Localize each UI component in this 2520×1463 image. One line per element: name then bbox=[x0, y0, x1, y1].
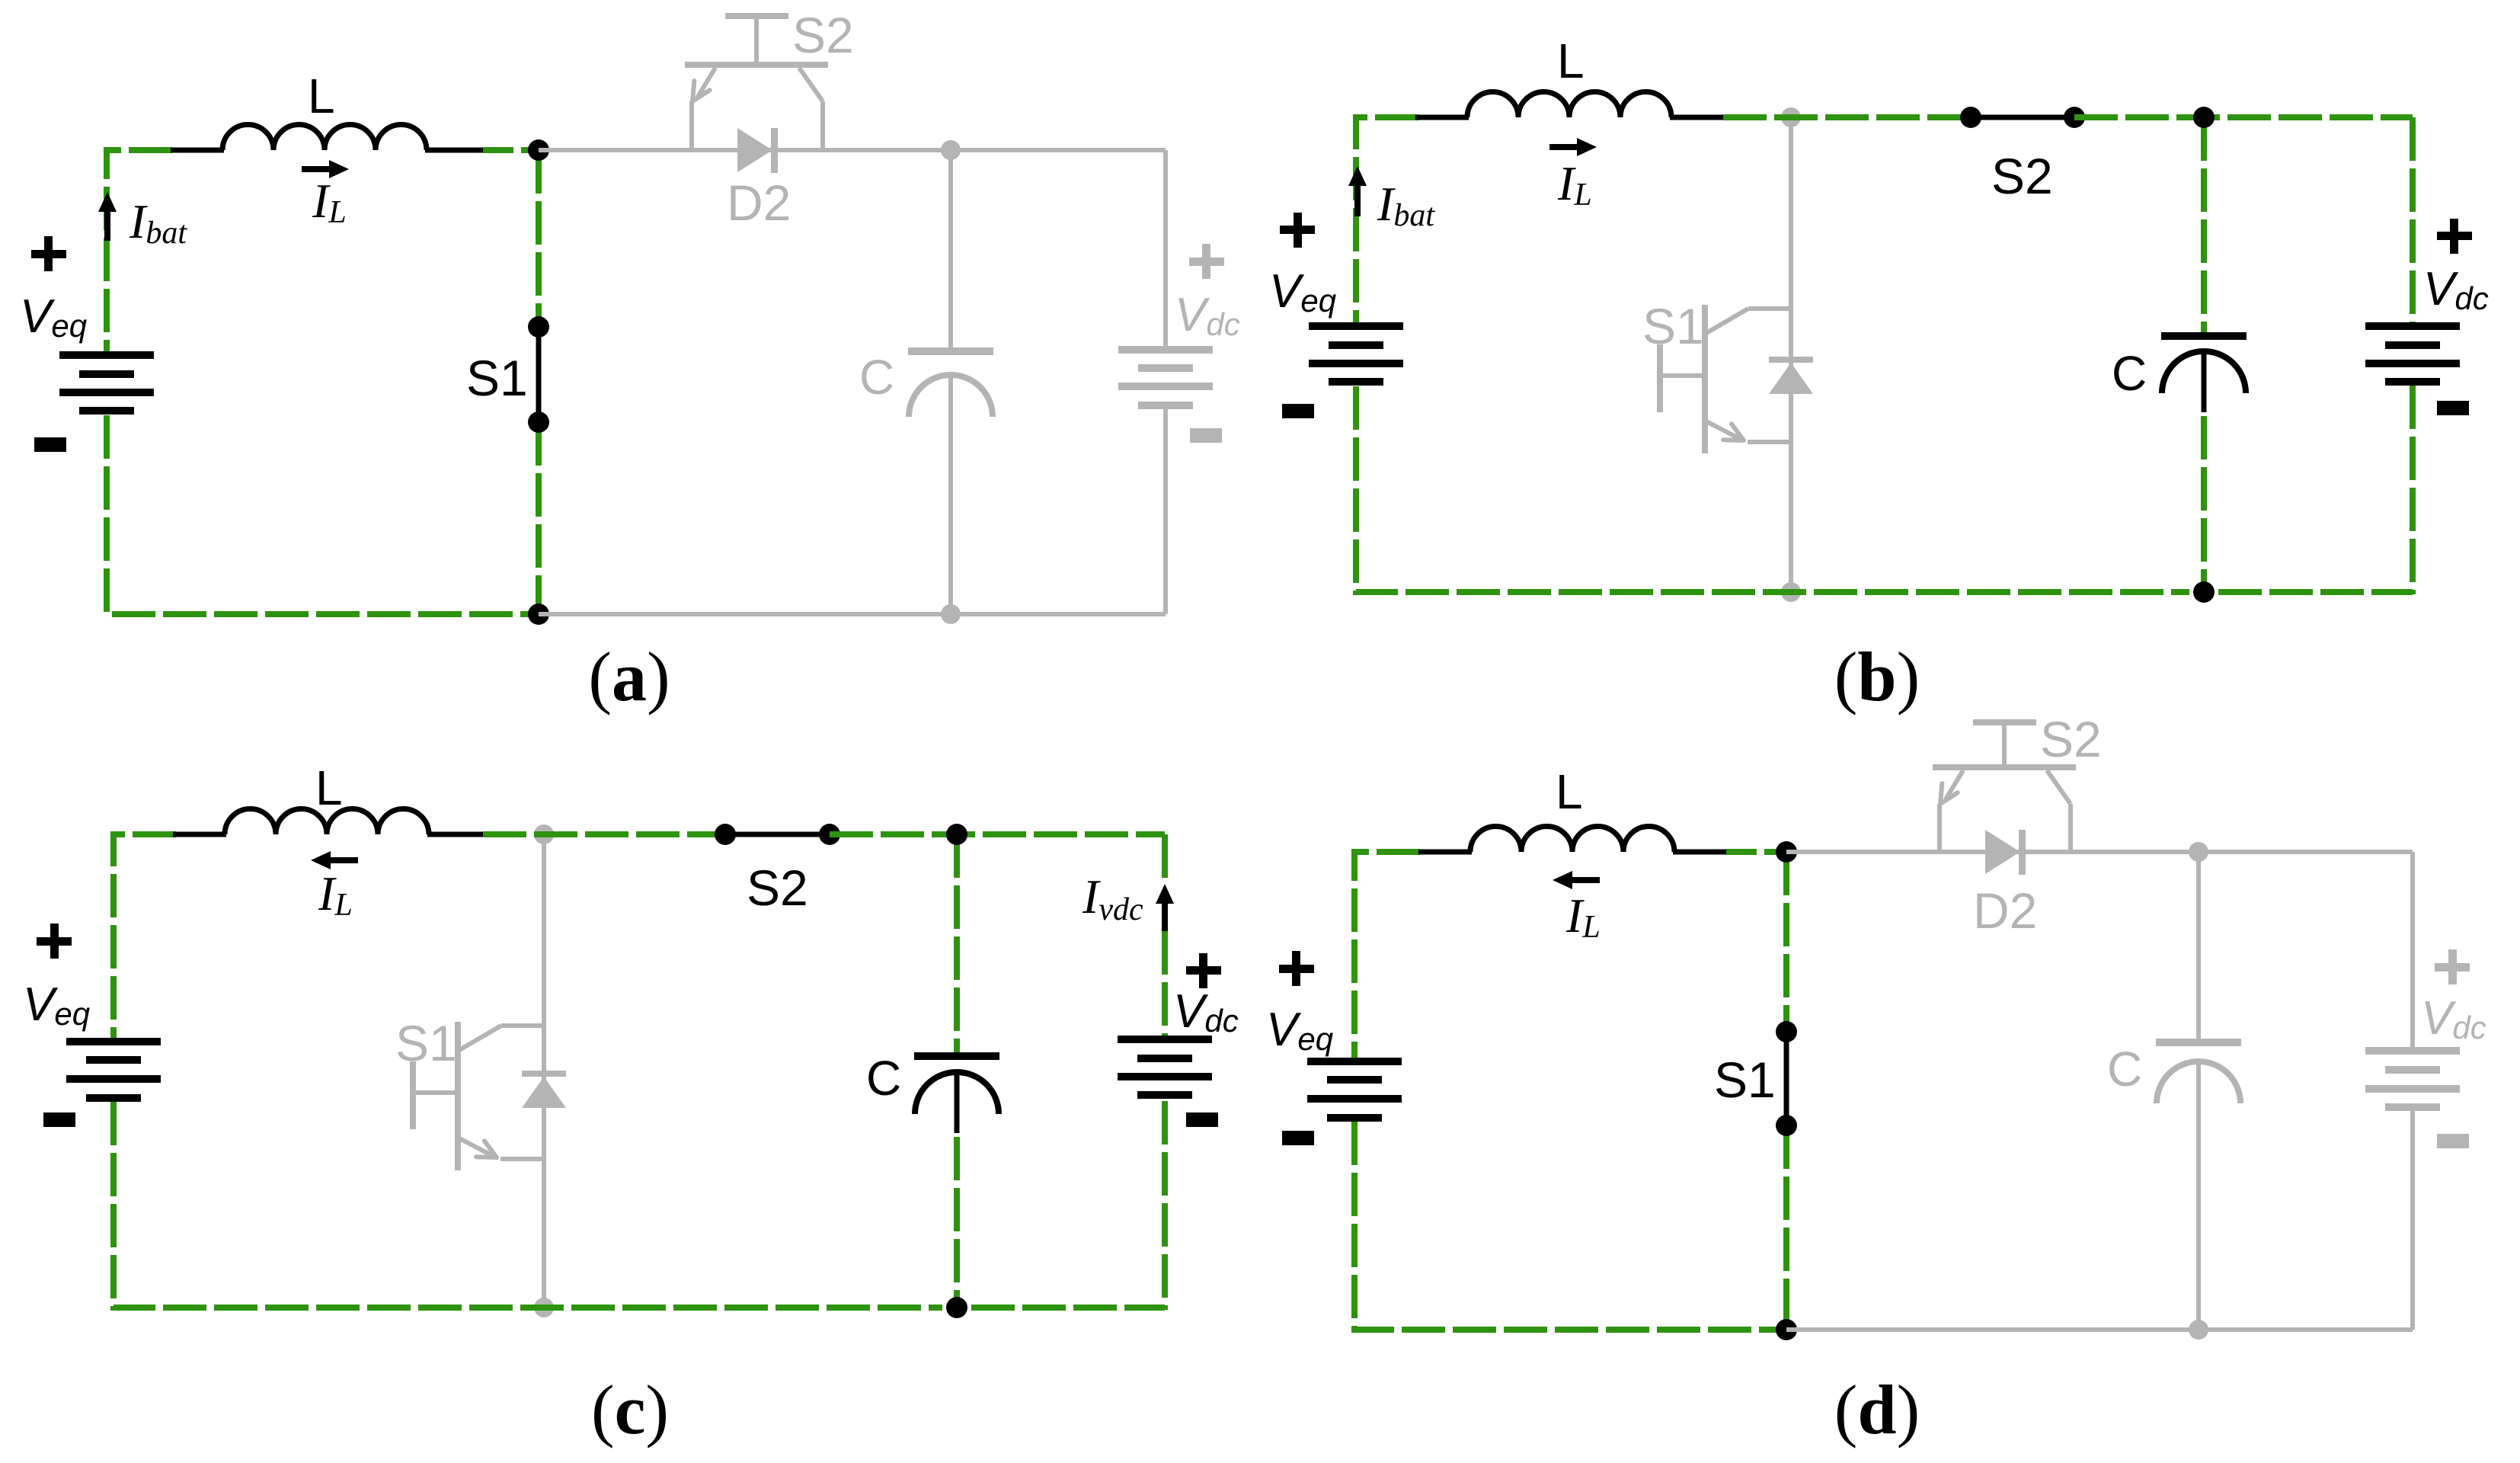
junction dot C top (d) bbox=[2189, 842, 2208, 862]
transistor S1 gate stub (c) bbox=[413, 1090, 458, 1095]
wire green left+top (d) bbox=[1354, 852, 1420, 1058]
label minus of Veq (b) bbox=[1282, 404, 1314, 418]
capacitor C (c) bbox=[914, 1052, 999, 1060]
capacitor C black lead (c) bbox=[955, 1072, 960, 1133]
wire black inductor lead right (b) bbox=[1670, 115, 1725, 120]
svg-text:(d): (d) bbox=[1834, 1371, 1920, 1449]
arrow IL (d) bbox=[1569, 877, 1600, 883]
capacitor C black lead (b) bbox=[2202, 351, 2207, 412]
junction dot C bottom (a) bbox=[941, 604, 961, 624]
wire green top segment 3 (b) bbox=[2074, 114, 2413, 120]
capacitor C branch green upper (c) bbox=[954, 834, 960, 1052]
wire green right upper (b) bbox=[2410, 117, 2416, 322]
svg-text:L: L bbox=[315, 760, 343, 815]
capacitor C upper lead (a) bbox=[948, 150, 953, 347]
arrow Ibat (b) bbox=[1354, 177, 1361, 216]
transistor S1 gate stub (b) bbox=[1660, 373, 1705, 378]
battery Veq (d) bbox=[1307, 1058, 1402, 1065]
label minus of Vdc (a) bbox=[1190, 428, 1222, 443]
svg-text:S1: S1 bbox=[466, 350, 528, 406]
capacitor C lower lead (d) bbox=[2196, 1061, 2201, 1330]
svg-text:L: L bbox=[1557, 34, 1585, 88]
wire green top segment 2 (c) bbox=[483, 831, 725, 837]
transistor S2 body bar (a) bbox=[685, 62, 828, 68]
label plus of Vdc (c) bbox=[1186, 966, 1221, 975]
wire black inductor lead left (b) bbox=[1415, 115, 1469, 120]
label plus of Vdc (d) bbox=[2435, 963, 2470, 972]
capacitor C branch green upper (b) bbox=[2201, 117, 2207, 332]
junction dot S1 bottom (c) bbox=[534, 1298, 554, 1317]
label minus of Veq (d) bbox=[1282, 1131, 1314, 1145]
arrow Ibat (a) bbox=[104, 203, 110, 241]
arrow IL (a) bbox=[302, 166, 332, 172]
junction dot C bottom (c) bbox=[946, 1297, 967, 1318]
diode of S1 (c) bbox=[522, 1071, 566, 1077]
switch S2 closed (b) bbox=[1971, 115, 2074, 120]
transistor S2 collector (d) bbox=[2047, 770, 2071, 804]
node dot S2 left (b) bbox=[1960, 107, 1981, 128]
wire green top segment 3 (c) bbox=[830, 831, 1165, 837]
label plus of Vdc (b) bbox=[2437, 232, 2472, 240]
transistor S1 body bar (b) bbox=[1702, 305, 1708, 453]
junction node bottom (d) bbox=[1776, 1319, 1797, 1340]
svg-text:C: C bbox=[2112, 346, 2147, 401]
junction dot C top (b) bbox=[2193, 107, 2215, 128]
inductor L (b) bbox=[1467, 92, 1671, 118]
transistor S2 gate stub (a) bbox=[754, 16, 759, 65]
label minus of Veq (a) bbox=[34, 437, 66, 452]
wire black inductor lead left (a) bbox=[171, 148, 224, 153]
label minus of Vdc (b) bbox=[2437, 401, 2469, 415]
label minus of Vdc (c) bbox=[1186, 1112, 1218, 1127]
junction dot S1 bottom (b) bbox=[1781, 582, 1801, 602]
wire green left lower (d) bbox=[1354, 1122, 1780, 1330]
wire gray bottom (d) bbox=[1786, 1327, 2413, 1332]
diode D2 (d) bbox=[1985, 830, 2020, 874]
wire green top-right segment (d) bbox=[1726, 849, 1786, 855]
switch S1 closed (a) bbox=[536, 327, 542, 422]
wire gray right lower (d) bbox=[2410, 1111, 2415, 1330]
transistor S1 collector (b) bbox=[1706, 309, 1748, 333]
capacitor C (d) bbox=[2156, 1039, 2241, 1046]
capacitor C branch green lower (b) bbox=[2201, 416, 2207, 592]
wire black inductor lead left (c) bbox=[173, 832, 226, 837]
svg-text:(a): (a) bbox=[588, 638, 670, 715]
junction node bottom (a) bbox=[528, 603, 549, 625]
diode of S1 (b) bbox=[1769, 357, 1813, 363]
wire green bottom (c) bbox=[971, 1305, 1165, 1311]
wire black inductor lead right (d) bbox=[1673, 850, 1728, 855]
wire gray right upper (a) bbox=[1163, 150, 1168, 351]
svg-text:S2: S2 bbox=[2040, 711, 2102, 767]
capacitor C (b) bbox=[2161, 332, 2247, 340]
label minus of Vdc (d) bbox=[2437, 1134, 2469, 1148]
node dot S1 top (d) bbox=[1776, 1021, 1797, 1042]
junction dot C top (a) bbox=[941, 140, 961, 160]
wire gray S1 leg (c) bbox=[542, 834, 546, 1308]
wire green left lower (c) bbox=[114, 1102, 942, 1308]
node dot S2 right (c) bbox=[819, 824, 840, 845]
transistor S2 gate bar (d) bbox=[1973, 719, 2036, 725]
wire green S1 leg upper (d) bbox=[1783, 852, 1789, 1032]
switch S2 closed (c) bbox=[725, 832, 830, 837]
transistor S1 emitter (c) bbox=[459, 1138, 494, 1157]
svg-text:D2: D2 bbox=[1973, 882, 2037, 939]
battery Veq (b) bbox=[1309, 322, 1403, 330]
wire green right upper (c) bbox=[1162, 834, 1168, 884]
wire black inductor lead right (c) bbox=[427, 832, 484, 837]
capacitor C branch green lower (c) bbox=[954, 1137, 960, 1308]
junction dot C top (c) bbox=[946, 824, 967, 845]
junction node top (a) bbox=[528, 139, 549, 161]
label plus of Veq (d) bbox=[1279, 965, 1314, 973]
arrow Ivdc (c) bbox=[1162, 895, 1168, 931]
label plus of Veq (b) bbox=[1280, 226, 1315, 234]
transistor S2 gate bar (a) bbox=[725, 13, 788, 19]
arrow IL (b) bbox=[1549, 144, 1580, 150]
junction dot S1 top (c) bbox=[534, 824, 554, 844]
capacitor C lower lead (a) bbox=[948, 375, 953, 614]
inductor L (a) bbox=[222, 125, 427, 151]
node dot S2 left (c) bbox=[715, 824, 736, 845]
wire green left+top (c) bbox=[114, 834, 176, 1038]
wire green right lower (c) bbox=[1162, 1101, 1168, 1310]
label plus of Veq (a) bbox=[31, 250, 66, 258]
svg-text:C: C bbox=[859, 350, 894, 405]
wire green S1 leg lower (a) bbox=[536, 422, 542, 614]
transistor S2 emitter (d) bbox=[1946, 770, 1963, 799]
wire green top segment 2 (b) bbox=[1723, 114, 1971, 120]
node dot S1 bottom (d) bbox=[1776, 1115, 1797, 1136]
wire gray right upper (d) bbox=[2410, 852, 2415, 1053]
svg-text:(c): (c) bbox=[591, 1371, 669, 1449]
transistor S2 collector (a) bbox=[799, 68, 823, 101]
svg-text:S2: S2 bbox=[792, 7, 854, 63]
node dot S1 top (a) bbox=[528, 316, 549, 338]
wire green S1 leg upper (a) bbox=[536, 150, 542, 327]
svg-text:C: C bbox=[2107, 1042, 2142, 1096]
svg-text:L: L bbox=[308, 69, 335, 123]
transistor S1 body bar (c) bbox=[455, 1022, 461, 1170]
battery Vdc (d) bbox=[2365, 1047, 2460, 1055]
battery Veq (c) bbox=[66, 1038, 161, 1045]
svg-text:S2: S2 bbox=[747, 860, 808, 916]
transistor S2 body bar (d) bbox=[1933, 764, 2076, 770]
svg-text:S2: S2 bbox=[1991, 148, 2053, 204]
wire gray top (a) bbox=[539, 148, 1166, 152]
junction node top (d) bbox=[1776, 841, 1797, 863]
node dot S2 right (b) bbox=[2064, 107, 2085, 128]
battery Veq (a) bbox=[59, 351, 154, 359]
wire gray bottom (a) bbox=[539, 612, 1166, 616]
capacitor C (a) bbox=[908, 347, 993, 355]
junction dot C bottom (b) bbox=[2193, 581, 2215, 603]
wire black inductor lead right (a) bbox=[425, 148, 484, 153]
inductor L (d) bbox=[1470, 827, 1674, 853]
wire green left+top (a) bbox=[107, 150, 172, 351]
svg-text:L: L bbox=[1556, 764, 1583, 819]
svg-text:S1: S1 bbox=[1642, 298, 1704, 354]
inductor L (c) bbox=[225, 809, 429, 835]
arrow IL (c) bbox=[328, 857, 358, 863]
wire black inductor lead left (d) bbox=[1418, 850, 1472, 855]
wire green left lower (a) bbox=[107, 415, 532, 614]
label minus of Veq (c) bbox=[43, 1112, 75, 1127]
wire gray S1 leg (b) bbox=[1789, 117, 1793, 592]
diode D2 (a) bbox=[737, 128, 772, 172]
wire green top-right segment (a) bbox=[483, 147, 539, 153]
transistor S1 collector (c) bbox=[459, 1026, 501, 1050]
wire gray right lower (a) bbox=[1163, 409, 1168, 614]
label plus of Vdc (a) bbox=[1189, 258, 1224, 266]
switch S1 closed (d) bbox=[1784, 1032, 1789, 1125]
junction dot S1 top (b) bbox=[1781, 107, 1801, 127]
svg-text:S1: S1 bbox=[395, 1015, 457, 1071]
node dot S1 bottom (a) bbox=[528, 411, 549, 433]
battery Vdc (a) bbox=[1118, 346, 1213, 354]
transistor S1 gate bar (c) bbox=[410, 1061, 416, 1129]
battery Vdc (c) bbox=[1118, 1036, 1212, 1043]
wire green left lower (b) bbox=[1356, 386, 2189, 592]
transistor S2 gate stub (d) bbox=[2002, 722, 2007, 767]
junction dot C bottom (d) bbox=[2189, 1320, 2208, 1340]
wire green bottom (b) bbox=[2218, 589, 2413, 595]
wire green right lower (b) bbox=[2410, 386, 2416, 594]
wire green left+top (b) bbox=[1356, 117, 1418, 322]
transistor S1 gate bar (b) bbox=[1657, 344, 1663, 412]
svg-text:S1: S1 bbox=[1714, 1052, 1776, 1108]
wire gray top (d) bbox=[1786, 850, 2413, 854]
label plus of Veq (c) bbox=[37, 937, 72, 946]
svg-text:C: C bbox=[866, 1051, 901, 1106]
wire green right mid (c) bbox=[1162, 931, 1168, 1036]
wire green S1 leg lower (d) bbox=[1783, 1125, 1789, 1330]
transistor S1 emitter (b) bbox=[1706, 421, 1741, 440]
svg-text:(b): (b) bbox=[1834, 638, 1920, 715]
battery Vdc (b) bbox=[2365, 322, 2460, 330]
capacitor C upper lead (d) bbox=[2196, 852, 2201, 1039]
transistor S2 emitter (a) bbox=[698, 68, 715, 97]
svg-text:D2: D2 bbox=[727, 174, 791, 231]
